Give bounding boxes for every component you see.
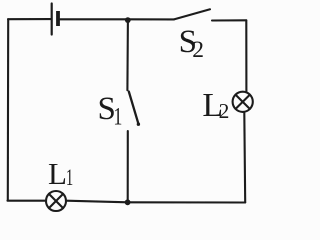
wire middle branch upper bbox=[126, 20, 129, 90]
wire battery to S2 pivot bbox=[60, 18, 174, 20]
node bottom junction bbox=[125, 199, 131, 205]
lamp L2 cross bbox=[236, 95, 250, 109]
battery short thick plate bbox=[56, 11, 60, 26]
wire left side bbox=[7, 19, 9, 200]
wire bottom left segment bbox=[8, 200, 46, 202]
wire bottom right segment bbox=[128, 201, 245, 203]
switch S1 blade tip blob bbox=[137, 123, 140, 126]
node top junction bbox=[125, 17, 131, 23]
switch S2 blade bbox=[174, 9, 210, 19]
lamp L1 cross bbox=[49, 194, 63, 208]
wire middle branch lower bbox=[127, 131, 129, 202]
battery long plate bbox=[51, 4, 53, 35]
wire right side upper (corner to L2) bbox=[245, 20, 247, 92]
wire top-left segment bbox=[8, 18, 51, 20]
switch S1 blade bbox=[129, 92, 139, 125]
lamp L1 circle bbox=[46, 191, 66, 211]
svg-text:1: 1 bbox=[66, 166, 73, 191]
svg-text:2: 2 bbox=[192, 37, 204, 63]
svg-text:1: 1 bbox=[113, 103, 122, 131]
svg-text:L: L bbox=[48, 156, 67, 191]
wire right side lower (L2 to corner) bbox=[243, 112, 246, 202]
svg-text:2: 2 bbox=[219, 99, 230, 123]
lamp L2 circle bbox=[233, 92, 253, 112]
wire S2 fixed contact to top-right corner bbox=[212, 19, 246, 21]
wire bottom middle segment bbox=[66, 201, 127, 203]
